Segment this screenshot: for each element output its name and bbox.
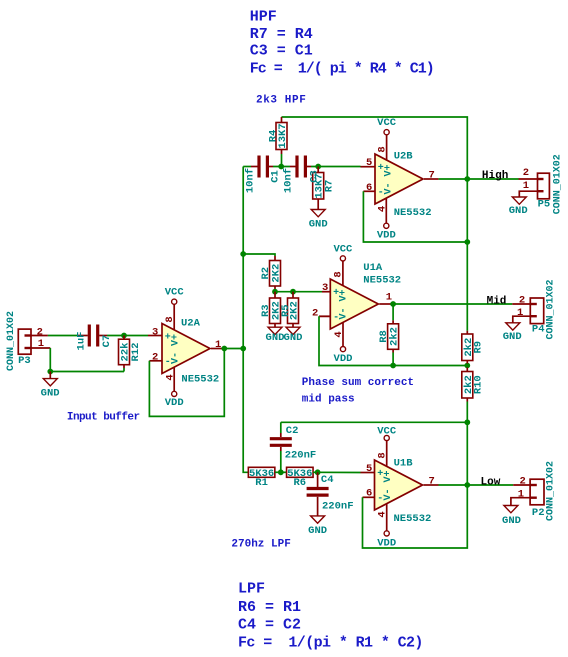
wire U1B output bbox=[439, 484, 468, 486]
svg-text:270hz LPF: 270hz LPF bbox=[231, 539, 290, 551]
junction U2B output bbox=[464, 176, 470, 182]
svg-text:U2A: U2A bbox=[181, 318, 201, 330]
wire P3 pin2 to C7 bbox=[48, 335, 78, 337]
ground symbol P4 bbox=[503, 323, 522, 343]
svg-text:8: 8 bbox=[333, 271, 345, 277]
ground symbol R5 bbox=[284, 327, 303, 344]
op-amp U2A bbox=[162, 318, 219, 386]
junction R5 top bbox=[290, 289, 296, 295]
junction C3 R7 bbox=[315, 164, 321, 170]
resistor R1 5K36 bbox=[248, 467, 275, 489]
wire U2A feedback loop bbox=[149, 349, 224, 417]
junction R9 R10 bbox=[464, 363, 470, 369]
ground symbol input bbox=[41, 372, 60, 400]
svg-text:VCC: VCC bbox=[377, 426, 397, 438]
wire C3 to U2B pin5 bbox=[311, 166, 361, 168]
svg-text:Low: Low bbox=[481, 476, 501, 488]
pin 8 of U1A bbox=[333, 261, 345, 286]
pin 1 of P3 bbox=[31, 338, 50, 350]
svg-text:VDD: VDD bbox=[377, 229, 396, 241]
pin 1 of P4 bbox=[513, 307, 531, 323]
svg-text:VDD: VDD bbox=[334, 353, 353, 365]
pin 4 of U2A bbox=[165, 367, 177, 391]
svg-text:V+: V+ bbox=[339, 289, 350, 301]
VCC symbol U1B bbox=[377, 426, 397, 441]
svg-text:R7 = R4: R7 = R4 bbox=[250, 26, 313, 43]
svg-text:VCC: VCC bbox=[165, 287, 185, 299]
svg-text:6: 6 bbox=[366, 182, 372, 194]
svg-text:NE5532: NE5532 bbox=[394, 513, 432, 525]
VCC symbol U2B bbox=[377, 117, 397, 135]
svg-text:C2: C2 bbox=[286, 425, 299, 437]
svg-text:C1: C1 bbox=[270, 170, 282, 183]
pin 7 of U2B bbox=[424, 170, 439, 182]
svg-text:R12: R12 bbox=[130, 343, 142, 362]
svg-text:GND: GND bbox=[502, 515, 521, 527]
svg-text:C7: C7 bbox=[101, 335, 113, 348]
junction U1B output bbox=[464, 482, 470, 488]
svg-text:10nf: 10nf bbox=[283, 168, 295, 193]
pin 2 of P4 bbox=[512, 295, 530, 307]
pin 2 of P3 bbox=[31, 327, 48, 339]
pin 7 of U1B bbox=[424, 475, 439, 487]
junction U1A output bbox=[390, 301, 396, 307]
svg-text:220nF: 220nF bbox=[285, 449, 317, 461]
svg-text:V-: V- bbox=[383, 488, 394, 500]
resistor R8 2k2 bbox=[378, 304, 400, 366]
wire C7 to U2A pin3 bbox=[107, 335, 148, 337]
VCC symbol U2A bbox=[165, 287, 185, 305]
svg-text:P4: P4 bbox=[532, 323, 545, 335]
svg-text:R8: R8 bbox=[378, 330, 390, 343]
svg-text:U1B: U1B bbox=[394, 458, 414, 470]
svg-text:2: 2 bbox=[520, 475, 526, 487]
resistor R6 5K36 bbox=[287, 467, 314, 489]
svg-text:1: 1 bbox=[518, 488, 524, 500]
pin 1 of U1A bbox=[379, 292, 393, 304]
junction R3 top bbox=[272, 289, 278, 295]
pin 1 of U2A bbox=[211, 339, 224, 351]
svg-text:GND: GND bbox=[509, 205, 528, 217]
svg-text:8: 8 bbox=[164, 316, 176, 322]
wire High net bbox=[467, 178, 518, 180]
svg-text:R6 = R1: R6 = R1 bbox=[238, 599, 301, 616]
junction U2A output bbox=[221, 346, 227, 352]
svg-text:P2: P2 bbox=[532, 507, 545, 519]
svg-text:1: 1 bbox=[215, 339, 221, 351]
svg-text:R9: R9 bbox=[473, 341, 485, 354]
junction node input bbox=[121, 333, 127, 339]
wire U1A feedback bbox=[319, 315, 330, 317]
svg-text:C4 = C2: C4 = C2 bbox=[238, 617, 301, 634]
pin 8 of U2A bbox=[164, 304, 176, 329]
svg-text:C4: C4 bbox=[321, 474, 334, 486]
pin 4 of U1B bbox=[377, 503, 389, 530]
junction C4 top bbox=[315, 469, 321, 475]
svg-text:Phase sum correct: Phase sum correct bbox=[302, 377, 414, 389]
svg-text:Fc = 1/( pi * R4 * C1): Fc = 1/( pi * R4 * C1) bbox=[250, 61, 434, 78]
svg-text:220nF: 220nF bbox=[322, 500, 354, 512]
svg-text:mid pass: mid pass bbox=[302, 394, 355, 406]
svg-text:GND: GND bbox=[266, 332, 285, 344]
svg-text:2: 2 bbox=[312, 307, 318, 319]
pin 3 of U2A bbox=[148, 326, 162, 338]
capacitor C1 10nf bbox=[245, 156, 282, 194]
svg-text:CONN_01X02: CONN_01X02 bbox=[553, 154, 564, 214]
svg-text:R7: R7 bbox=[323, 180, 335, 193]
wire left rail vertical bbox=[243, 167, 248, 473]
svg-text:R6: R6 bbox=[293, 477, 306, 489]
connector P5 CONN_01X02 bbox=[538, 154, 564, 214]
wire P3 pin1 down to gnd net bbox=[50, 348, 124, 372]
junction R8 bottom bbox=[390, 363, 396, 369]
pin 8 of U2B bbox=[377, 135, 389, 161]
connector P4 CONN_01X02 bbox=[530, 279, 556, 339]
svg-text:R2: R2 bbox=[260, 267, 272, 280]
svg-text:5: 5 bbox=[366, 157, 372, 169]
op-amp U1A bbox=[330, 262, 401, 329]
svg-text:C3 = C1: C3 = C1 bbox=[250, 43, 313, 60]
junction rail U2A out bbox=[240, 346, 246, 352]
svg-text:1: 1 bbox=[523, 180, 529, 192]
resistor R3 2K2 bbox=[260, 292, 283, 328]
svg-text:1: 1 bbox=[38, 338, 44, 350]
wire C2 top to rail bbox=[281, 421, 468, 423]
svg-text:2K2: 2K2 bbox=[271, 264, 283, 283]
wire top HPF rail bbox=[282, 117, 468, 331]
svg-text:LPF: LPF bbox=[238, 581, 265, 598]
ground symbol C4 bbox=[308, 516, 327, 537]
junction U2B feedback rail bbox=[464, 239, 470, 245]
svg-text:VCC: VCC bbox=[333, 244, 353, 256]
svg-text:R10: R10 bbox=[473, 375, 485, 394]
junction gnd net bbox=[47, 369, 53, 375]
svg-text:1: 1 bbox=[517, 307, 523, 319]
wire rail to C1 bbox=[243, 166, 251, 168]
pin 6 of U2B bbox=[363, 182, 375, 194]
blue notes: LPF equations text block bbox=[238, 581, 423, 652]
connector P2 CONN_01X02 bbox=[530, 461, 556, 521]
svg-text:6: 6 bbox=[366, 488, 372, 500]
svg-text:CONN_01X02: CONN_01X02 bbox=[6, 311, 17, 371]
VDD symbol U2B bbox=[377, 223, 396, 241]
svg-text:4: 4 bbox=[377, 511, 389, 517]
svg-text:P5: P5 bbox=[538, 199, 551, 211]
pin 4 of U1A bbox=[333, 323, 345, 347]
svg-text:3: 3 bbox=[322, 282, 328, 294]
pin 3 of U1A bbox=[322, 282, 330, 294]
wire U1B feedback and right rail bottom bbox=[363, 422, 468, 548]
svg-text:U2B: U2B bbox=[394, 151, 414, 163]
wire Low net bbox=[467, 484, 513, 486]
svg-text:GND: GND bbox=[284, 332, 303, 344]
svg-text:8: 8 bbox=[377, 452, 389, 458]
svg-text:GND: GND bbox=[41, 388, 60, 400]
svg-text:Mid: Mid bbox=[487, 296, 507, 308]
pin 2 of U2A bbox=[149, 351, 162, 363]
svg-text:VDD: VDD bbox=[165, 397, 184, 409]
svg-text:CONN_01X02: CONN_01X02 bbox=[545, 461, 556, 521]
svg-text:4: 4 bbox=[165, 374, 177, 380]
ground symbol P5 bbox=[509, 197, 528, 217]
svg-text:R3: R3 bbox=[260, 304, 272, 317]
svg-text:U1A: U1A bbox=[363, 262, 383, 274]
svg-text:2: 2 bbox=[519, 295, 525, 307]
svg-text:P3: P3 bbox=[18, 355, 31, 367]
svg-text:7: 7 bbox=[429, 475, 435, 487]
resistor R10 2k2 bbox=[462, 368, 485, 423]
svg-text:V+: V+ bbox=[170, 334, 181, 346]
svg-text:R5: R5 bbox=[280, 304, 292, 317]
pin 4 of U2B bbox=[377, 198, 389, 224]
VDD symbol U1B bbox=[377, 531, 396, 550]
pin 5 of U1B bbox=[361, 463, 375, 475]
svg-text:NE5532: NE5532 bbox=[394, 207, 432, 219]
pin 1 of P2 bbox=[511, 488, 530, 505]
svg-text:10nf: 10nf bbox=[245, 168, 257, 193]
svg-text:2: 2 bbox=[37, 327, 43, 339]
resistor R5 2K2 bbox=[280, 292, 300, 328]
svg-text:7: 7 bbox=[429, 170, 435, 182]
junction C2 bottom bbox=[278, 469, 284, 475]
resistor R2 2K2 bbox=[260, 256, 283, 292]
svg-text:2: 2 bbox=[152, 351, 158, 363]
wire R6 to U1B pin5 bbox=[313, 471, 361, 473]
svg-text:NE5532: NE5532 bbox=[181, 374, 219, 386]
svg-text:Fc = 1/(pi * R1 * C2): Fc = 1/(pi * R1 * C2) bbox=[238, 634, 423, 651]
svg-text:C3: C3 bbox=[309, 170, 321, 183]
VDD symbol U2A bbox=[165, 391, 184, 409]
capacitor C7 1uF bbox=[75, 325, 113, 351]
junction rail R2 branch bbox=[240, 251, 246, 257]
wire R1 to R6 bbox=[275, 471, 287, 473]
svg-text:8: 8 bbox=[377, 146, 389, 152]
capacitor C2 220nF bbox=[270, 422, 316, 472]
pin 2 of P5 bbox=[519, 167, 538, 179]
op-amp U2B bbox=[375, 151, 432, 220]
svg-text:V-: V- bbox=[170, 352, 181, 364]
capacitor C4 220nF bbox=[307, 472, 354, 516]
pin 1 of P5 bbox=[519, 180, 537, 197]
connector P3 CONN_01X02 bbox=[6, 311, 31, 371]
svg-text:NE5532: NE5532 bbox=[363, 275, 401, 287]
pin 8 of U1B bbox=[377, 441, 389, 466]
svg-text:3: 3 bbox=[152, 326, 158, 338]
op-amp U1B bbox=[375, 458, 432, 525]
resistor R9 2k2 bbox=[462, 331, 485, 368]
wire R2 to U1A pin3 bbox=[275, 291, 322, 293]
svg-text:5: 5 bbox=[366, 463, 372, 475]
resistor R12 22k bbox=[119, 336, 143, 372]
svg-text:2k2: 2k2 bbox=[389, 327, 401, 346]
svg-text:HPF: HPF bbox=[250, 8, 277, 25]
wire U2A output bbox=[224, 348, 243, 350]
pin 6 of U1B bbox=[363, 488, 375, 500]
svg-text:V-: V- bbox=[383, 182, 394, 194]
VDD symbol U1A bbox=[334, 347, 353, 366]
svg-text:CONN_01X02: CONN_01X02 bbox=[546, 279, 557, 339]
pin 2 of U1A bbox=[312, 307, 330, 319]
blue notes: HPF equations text block bbox=[250, 8, 434, 77]
wire rail to R2 bbox=[243, 254, 275, 256]
svg-text:2: 2 bbox=[523, 167, 529, 179]
wire U2B output bbox=[439, 178, 468, 180]
junction C1 C3 R4 bbox=[278, 164, 284, 170]
svg-text:4: 4 bbox=[377, 206, 389, 212]
svg-text:1uF: 1uF bbox=[75, 332, 87, 351]
svg-text:VCC: VCC bbox=[377, 117, 397, 129]
wire U2B feedback bbox=[363, 191, 467, 242]
svg-text:R1: R1 bbox=[255, 477, 268, 489]
svg-text:GND: GND bbox=[503, 331, 522, 343]
svg-text:High: High bbox=[482, 170, 508, 182]
capacitor C3 10nf bbox=[283, 156, 311, 194]
VCC symbol U1A bbox=[333, 244, 353, 261]
svg-text:V+: V+ bbox=[383, 470, 394, 482]
ground symbol R7 bbox=[309, 210, 328, 231]
svg-text:GND: GND bbox=[309, 218, 328, 230]
svg-text:V+: V+ bbox=[383, 164, 394, 176]
svg-text:R4: R4 bbox=[267, 130, 279, 143]
wire C1 to C3 bbox=[273, 166, 290, 168]
resistor R4 13K7 bbox=[267, 117, 289, 167]
svg-text:V-: V- bbox=[339, 307, 350, 319]
wire Mid net bbox=[393, 303, 512, 305]
ground symbol R3 bbox=[266, 327, 285, 344]
svg-text:2k3 HPF: 2k3 HPF bbox=[256, 95, 306, 107]
svg-text:Input buffer: Input buffer bbox=[67, 412, 140, 424]
pin 2 of P2 bbox=[513, 475, 530, 487]
ground symbol P2 bbox=[502, 506, 521, 528]
svg-text:4: 4 bbox=[333, 331, 345, 337]
svg-text:GND: GND bbox=[308, 525, 327, 537]
resistor R7 13K7 bbox=[309, 167, 336, 210]
junction R10 bottom rail bbox=[464, 419, 470, 425]
pin 5 of U2B bbox=[361, 157, 376, 169]
